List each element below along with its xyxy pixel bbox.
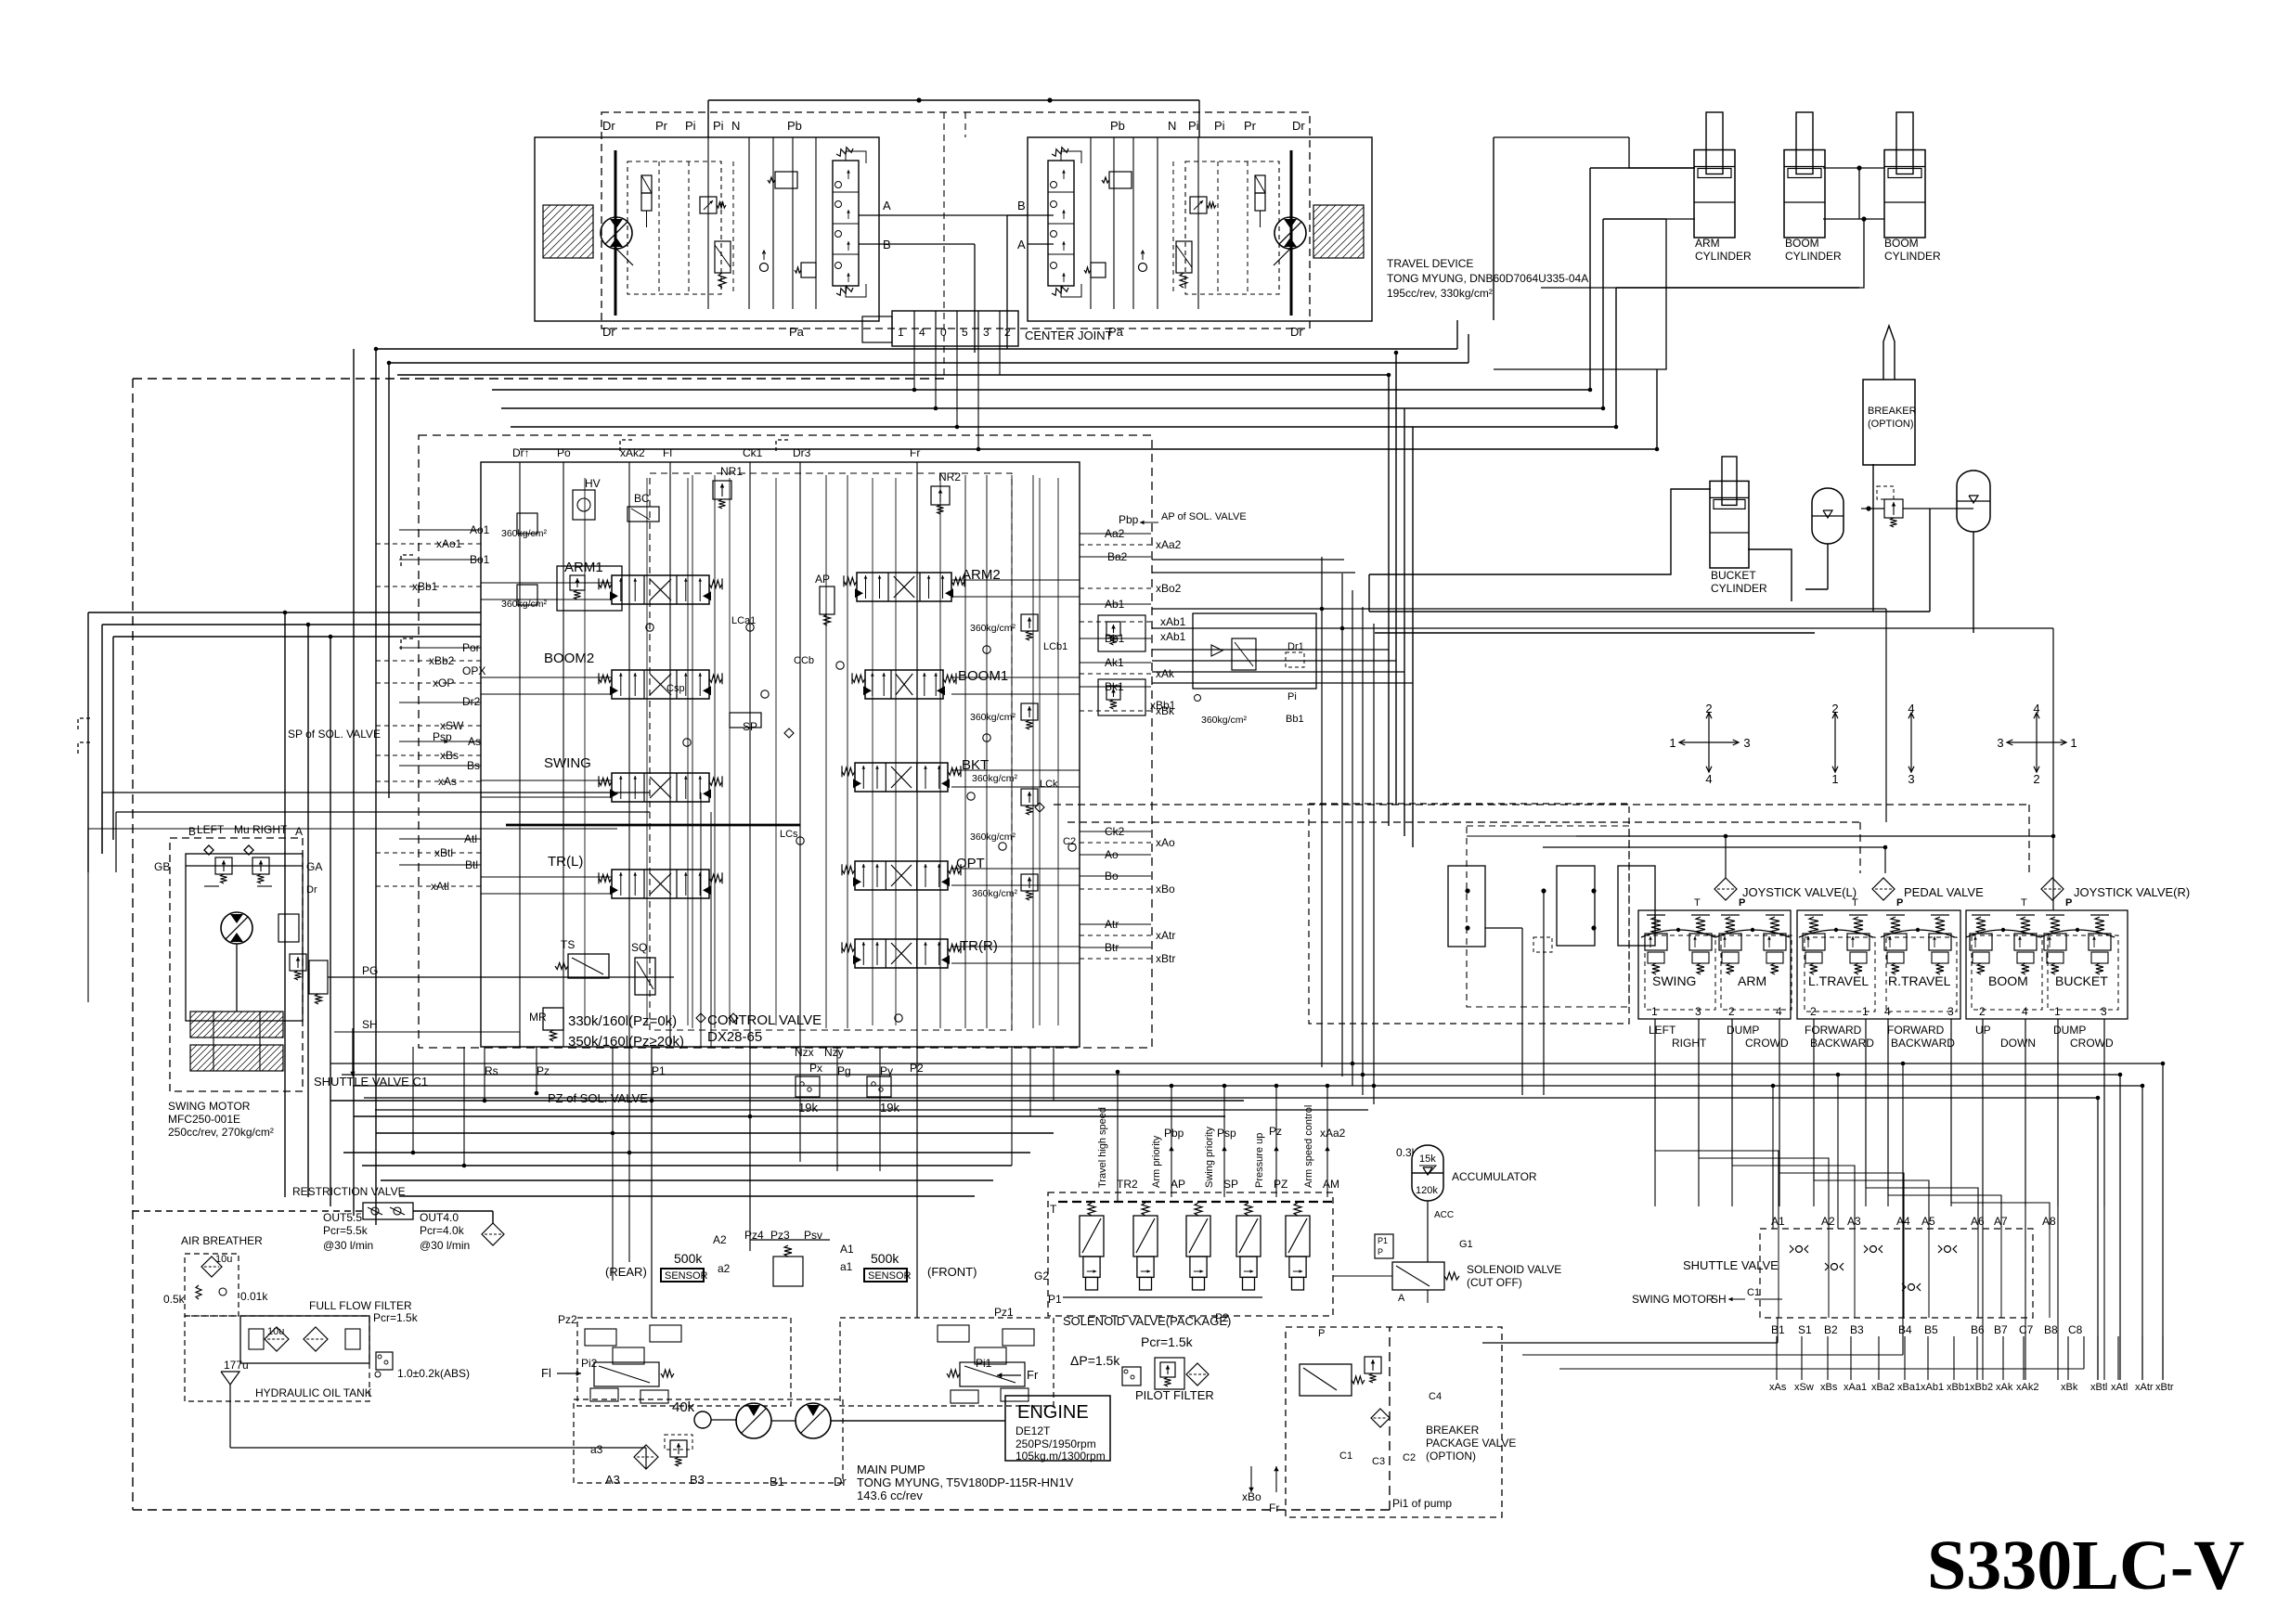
svg-text:Dr2: Dr2 [462, 695, 481, 708]
svg-text:PACKAGE VALVE: PACKAGE VALVE [1426, 1437, 1516, 1450]
svg-text:AM: AM [1323, 1178, 1339, 1191]
svg-text:xBo: xBo [1156, 883, 1175, 896]
svg-text:xAa2: xAa2 [1320, 1127, 1346, 1140]
svg-text:SP: SP [1223, 1178, 1238, 1191]
svg-text:350k/160l(Pz≥20k): 350k/160l(Pz≥20k) [568, 1034, 684, 1050]
svg-text:SOLENOID VALVE(PACKAGE): SOLENOID VALVE(PACKAGE) [1063, 1314, 1231, 1328]
svg-text:xBb1: xBb1 [412, 580, 438, 593]
svg-text:360kg/cm²: 360kg/cm² [970, 712, 1016, 723]
svg-text:OPX: OPX [462, 664, 485, 677]
svg-text:Pi1 of pump: Pi1 of pump [1392, 1497, 1452, 1510]
svg-text:P: P [2065, 897, 2072, 909]
svg-text:NR1: NR1 [720, 465, 743, 478]
svg-text:(OPTION): (OPTION) [1426, 1450, 1476, 1463]
svg-text:xBb1: xBb1 [1947, 1382, 1970, 1393]
svg-text:xAk: xAk [1996, 1382, 2013, 1393]
svg-text:Travel high speed: Travel high speed [1097, 1107, 1108, 1188]
svg-text:3: 3 [1743, 736, 1750, 750]
svg-text:2: 2 [1705, 702, 1712, 715]
svg-text:Pcr=5.5k: Pcr=5.5k [323, 1224, 369, 1237]
svg-text:BOOM: BOOM [1988, 973, 2028, 988]
svg-text:SP of SOL. VALVE: SP of SOL. VALVE [288, 728, 381, 741]
svg-text:B7: B7 [1994, 1323, 2008, 1336]
svg-text:MAIN PUMP: MAIN PUMP [857, 1463, 925, 1476]
svg-text:BACKWARD: BACKWARD [1891, 1037, 1955, 1050]
svg-text:(FRONT): (FRONT) [927, 1265, 977, 1279]
svg-text:2: 2 [1810, 1005, 1817, 1018]
svg-text:4: 4 [2022, 1005, 2028, 1018]
svg-text:P: P [1378, 1247, 1383, 1257]
svg-text:Pressure up: Pressure up [1254, 1133, 1265, 1188]
svg-text:BREAKER: BREAKER [1426, 1424, 1480, 1437]
svg-text:CCb: CCb [794, 655, 814, 666]
svg-text:SWING MOTOR: SWING MOTOR [168, 1100, 251, 1113]
svg-text:1: 1 [1862, 1005, 1869, 1018]
svg-text:HV: HV [585, 477, 601, 490]
svg-text:C8: C8 [2068, 1323, 2083, 1336]
svg-text:xAb1: xAb1 [1921, 1382, 1944, 1393]
svg-text:Fl: Fl [663, 446, 672, 459]
svg-text:Po: Po [557, 446, 571, 459]
svg-text:ARM: ARM [1738, 973, 1766, 988]
svg-text:360kg/cm²: 360kg/cm² [972, 773, 1018, 784]
svg-text:CYLINDER: CYLINDER [1711, 582, 1767, 595]
svg-text:3: 3 [1947, 1005, 1954, 1018]
svg-text:xBb2: xBb2 [1970, 1382, 1993, 1393]
svg-text:360kg/cm²: 360kg/cm² [501, 599, 548, 610]
svg-text:C1: C1 [1339, 1450, 1352, 1462]
svg-text:B1: B1 [770, 1475, 784, 1489]
svg-text:GA: GA [306, 860, 322, 873]
svg-text:xBa1: xBa1 [1897, 1382, 1921, 1393]
svg-text:Pz: Pz [537, 1064, 550, 1077]
svg-text:T: T [1694, 897, 1701, 909]
svg-text:3: 3 [1908, 772, 1914, 786]
svg-text:1: 1 [898, 326, 904, 339]
svg-text:@30 l/min: @30 l/min [323, 1239, 373, 1252]
svg-text:LCs: LCs [780, 829, 798, 840]
svg-text:(REAR): (REAR) [605, 1265, 647, 1279]
svg-text:SH: SH [1711, 1293, 1727, 1306]
svg-text:Pi2: Pi2 [581, 1357, 598, 1370]
svg-text:SHUTTLE VALVE C1: SHUTTLE VALVE C1 [314, 1075, 428, 1089]
svg-text:xAo1: xAo1 [436, 537, 462, 550]
svg-text:Pi: Pi [1287, 691, 1297, 702]
svg-text:Nzx: Nzx [795, 1046, 814, 1059]
svg-text:L.TRAVEL: L.TRAVEL [1808, 973, 1869, 988]
svg-text:G1: G1 [1459, 1239, 1473, 1250]
svg-text:P1: P1 [1378, 1236, 1388, 1245]
svg-text:CYLINDER: CYLINDER [1785, 250, 1842, 263]
svg-text:LEFT: LEFT [197, 823, 225, 836]
svg-text:Pi: Pi [713, 119, 724, 133]
svg-text:Rs: Rs [485, 1064, 498, 1077]
svg-text:a2: a2 [718, 1262, 731, 1275]
svg-text:Pb: Pb [787, 119, 802, 133]
svg-text:C1: C1 [1747, 1287, 1760, 1298]
svg-text:2: 2 [1728, 1005, 1735, 1018]
svg-text:R.TRAVEL: R.TRAVEL [1888, 973, 1951, 988]
svg-text:xAk2: xAk2 [2016, 1382, 2038, 1393]
svg-text:SH: SH [362, 1018, 378, 1031]
svg-text:143.6 cc/rev: 143.6 cc/rev [857, 1489, 923, 1502]
svg-text:360kg/cm²: 360kg/cm² [972, 888, 1018, 899]
svg-text:A3: A3 [605, 1473, 620, 1487]
svg-text:Fr: Fr [910, 446, 920, 459]
svg-text:ENGINE: ENGINE [1017, 1402, 1089, 1423]
svg-text:@30 l/min: @30 l/min [420, 1239, 470, 1252]
svg-text:C7: C7 [2019, 1323, 2034, 1336]
svg-text:A: A [883, 199, 891, 213]
svg-text:B: B [1017, 199, 1026, 213]
svg-text:Dr3: Dr3 [793, 446, 811, 459]
svg-text:SWING: SWING [1652, 973, 1696, 988]
svg-text:Pbp: Pbp [1164, 1127, 1184, 1140]
svg-text:P: P [1896, 897, 1903, 909]
svg-text:xBtr: xBtr [2155, 1382, 2174, 1393]
svg-text:xAa2: xAa2 [1156, 538, 1182, 551]
svg-text:S330LC-V: S330LC-V [1927, 1527, 2245, 1605]
svg-text:SENSOR: SENSOR [665, 1270, 708, 1282]
svg-text:SOLENOID VALVE: SOLENOID VALVE [1467, 1263, 1561, 1276]
svg-text:xBa2: xBa2 [1871, 1382, 1895, 1393]
svg-text:xAa1: xAa1 [1844, 1382, 1867, 1393]
svg-text:3: 3 [1695, 1005, 1701, 1018]
svg-text:CROWD: CROWD [1745, 1037, 1789, 1050]
svg-text:xAk: xAk [1156, 667, 1175, 680]
svg-text:PILOT FILTER: PILOT FILTER [1135, 1388, 1214, 1402]
svg-text:xBo: xBo [1242, 1490, 1261, 1503]
svg-text:10u: 10u [215, 1254, 232, 1265]
svg-text:Pr: Pr [1244, 119, 1257, 133]
svg-text:360kg/cm²: 360kg/cm² [970, 831, 1016, 843]
svg-text:15k: 15k [1419, 1154, 1436, 1165]
svg-text:JOYSTICK VALVE(R): JOYSTICK VALVE(R) [2074, 885, 2190, 899]
svg-text:Fr: Fr [1269, 1502, 1279, 1514]
svg-text:(OPTION): (OPTION) [1868, 419, 1914, 430]
svg-text:S1: S1 [1798, 1323, 1812, 1336]
svg-text:BACKWARD: BACKWARD [1810, 1037, 1874, 1050]
svg-text:2: 2 [1004, 326, 1011, 339]
svg-text:ACCUMULATOR: ACCUMULATOR [1452, 1170, 1537, 1183]
svg-text:BREAKER: BREAKER [1868, 406, 1917, 417]
svg-text:xAb1: xAb1 [1160, 615, 1186, 628]
svg-text:TRAVEL DEVICE: TRAVEL DEVICE [1387, 257, 1473, 270]
svg-text:Pa: Pa [789, 325, 805, 339]
svg-text:Py: Py [880, 1064, 893, 1077]
svg-text:Bb1: Bb1 [1286, 714, 1304, 725]
svg-text:B: B [188, 825, 196, 838]
svg-text:TONG MYUNG, T5V180DP-115R-HN1V: TONG MYUNG, T5V180DP-115R-HN1V [857, 1476, 1074, 1489]
svg-text:xAk2: xAk2 [620, 446, 645, 459]
svg-text:Pi: Pi [1188, 119, 1199, 133]
svg-text:3: 3 [983, 326, 990, 339]
svg-text:ARM1: ARM1 [564, 560, 603, 575]
svg-text:Csp: Csp [666, 683, 685, 694]
svg-text:LEFT: LEFT [1649, 1024, 1676, 1037]
svg-text:500k: 500k [674, 1251, 703, 1266]
svg-text:Dr: Dr [306, 884, 317, 896]
svg-text:Dr: Dr [602, 119, 615, 133]
svg-text:3: 3 [1997, 736, 2003, 750]
svg-text:LCb1: LCb1 [1043, 641, 1067, 652]
svg-text:ACC: ACC [1434, 1210, 1454, 1220]
svg-text:Mu: Mu [234, 823, 250, 836]
svg-text:195cc/rev, 330kg/cm²: 195cc/rev, 330kg/cm² [1387, 287, 1493, 300]
svg-text:500k: 500k [871, 1251, 899, 1266]
svg-text:Arm priority: Arm priority [1151, 1135, 1162, 1188]
svg-text:TR2: TR2 [1117, 1178, 1138, 1191]
svg-text:Dr: Dr [1292, 119, 1305, 133]
svg-text:CROWD: CROWD [2070, 1037, 2114, 1050]
svg-text:Dr: Dr [834, 1475, 847, 1489]
svg-text:B4: B4 [1898, 1323, 1912, 1336]
svg-text:1: 1 [1669, 736, 1675, 750]
svg-text:RIGHT: RIGHT [252, 823, 288, 836]
svg-text:360kg/cm²: 360kg/cm² [970, 623, 1016, 634]
svg-text:DUMP: DUMP [1727, 1024, 1759, 1037]
svg-text:1: 1 [2054, 1005, 2061, 1018]
svg-text:xSw: xSw [1794, 1382, 1814, 1393]
svg-text:A: A [1398, 1293, 1405, 1304]
svg-text:xAtl: xAtl [2111, 1382, 2128, 1393]
svg-text:40k: 40k [672, 1399, 695, 1415]
svg-text:CONTROL VALVE: CONTROL VALVE [707, 1012, 822, 1028]
svg-text:Pz: Pz [1269, 1125, 1282, 1138]
svg-text:T: T [1050, 1203, 1057, 1216]
svg-text:NR2: NR2 [938, 470, 961, 483]
svg-text:B3: B3 [690, 1473, 705, 1487]
svg-text:xBtl: xBtl [2090, 1382, 2107, 1393]
svg-text:1: 1 [1651, 1005, 1658, 1018]
svg-text:330k/160l(Pz=0k): 330k/160l(Pz=0k) [568, 1013, 677, 1029]
svg-text:Dr: Dr [602, 325, 615, 339]
svg-text:4: 4 [2033, 702, 2039, 715]
svg-text:10u: 10u [267, 1326, 284, 1337]
svg-text:Swing priority: Swing priority [1204, 1126, 1215, 1188]
svg-text:SQ: SQ [631, 941, 647, 954]
svg-text:FORWARD: FORWARD [1887, 1024, 1945, 1037]
svg-text:B5: B5 [1924, 1323, 1938, 1336]
svg-text:360kg/cm²: 360kg/cm² [501, 528, 548, 539]
svg-text:250PS/1950rpm: 250PS/1950rpm [1016, 1437, 1096, 1450]
svg-text:A: A [295, 825, 303, 838]
svg-text:Pi1: Pi1 [976, 1357, 992, 1370]
svg-text:ΔP=1.5k: ΔP=1.5k [1070, 1353, 1120, 1368]
svg-text:xBb1: xBb1 [1150, 699, 1176, 712]
svg-text:CYLINDER: CYLINDER [1884, 250, 1941, 263]
svg-text:BOOM2: BOOM2 [544, 651, 594, 666]
svg-text:0.5k: 0.5k [163, 1293, 186, 1306]
svg-text:SENSOR: SENSOR [868, 1270, 912, 1282]
svg-text:a3: a3 [590, 1443, 603, 1456]
svg-text:Pr: Pr [655, 119, 668, 133]
svg-text:P1: P1 [652, 1064, 666, 1077]
svg-text:DX28-65: DX28-65 [707, 1029, 762, 1045]
svg-text:xAo: xAo [1156, 836, 1175, 849]
svg-text:SP: SP [743, 720, 757, 733]
svg-text:0.01k: 0.01k [240, 1290, 268, 1303]
svg-text:CYLINDER: CYLINDER [1695, 250, 1752, 263]
svg-text:GB: GB [154, 860, 170, 873]
svg-text:(CUT OFF): (CUT OFF) [1467, 1276, 1522, 1289]
svg-text:Pz2: Pz2 [558, 1313, 577, 1326]
svg-text:RIGHT: RIGHT [1672, 1037, 1707, 1050]
svg-text:Pbp: Pbp [1119, 513, 1139, 526]
svg-text:Ck1: Ck1 [743, 446, 763, 459]
svg-text:T: T [2021, 897, 2027, 909]
svg-text:5: 5 [962, 326, 968, 339]
svg-text:1: 1 [2070, 736, 2077, 750]
svg-text:1: 1 [1831, 772, 1838, 786]
svg-text:a1: a1 [840, 1260, 853, 1273]
svg-text:LCk: LCk [1040, 779, 1058, 790]
svg-text:AP: AP [815, 573, 830, 586]
svg-text:120k: 120k [1416, 1185, 1438, 1196]
svg-text:Pi: Pi [685, 119, 696, 133]
svg-text:P2: P2 [1215, 1311, 1229, 1324]
svg-text:Pg: Pg [837, 1064, 851, 1077]
svg-text:A1: A1 [840, 1243, 854, 1256]
svg-text:3: 3 [2101, 1005, 2107, 1018]
svg-text:4: 4 [919, 326, 925, 339]
svg-text:B3: B3 [1850, 1323, 1864, 1336]
svg-text:19k: 19k [798, 1101, 818, 1115]
svg-text:360kg/cm²: 360kg/cm² [1201, 715, 1248, 726]
svg-text:105kg.m/1300rpm: 105kg.m/1300rpm [1016, 1450, 1106, 1463]
svg-text:A2: A2 [713, 1233, 727, 1246]
svg-text:N: N [731, 119, 740, 133]
svg-text:FORWARD: FORWARD [1805, 1024, 1862, 1037]
svg-text:DE12T: DE12T [1016, 1424, 1051, 1437]
svg-text:N: N [1168, 119, 1176, 133]
svg-text:Pz1: Pz1 [994, 1306, 1014, 1319]
svg-text:2: 2 [1979, 1005, 1986, 1018]
svg-text:B: B [883, 238, 891, 251]
svg-text:CENTER JOINT: CENTER JOINT [1025, 329, 1113, 342]
svg-text:BUCKET: BUCKET [2055, 973, 2108, 988]
svg-text:xAtr: xAtr [2135, 1382, 2154, 1393]
svg-text:xAtr: xAtr [1156, 929, 1175, 942]
svg-text:177u: 177u [224, 1359, 249, 1372]
svg-text:xAb1: xAb1 [1160, 630, 1186, 643]
svg-text:DOWN: DOWN [2000, 1037, 2036, 1050]
svg-text:BC: BC [634, 492, 650, 505]
svg-text:MFC250-001E: MFC250-001E [168, 1113, 240, 1126]
svg-text:xBtr: xBtr [1156, 952, 1175, 965]
svg-text:P1: P1 [1048, 1293, 1062, 1306]
svg-text:0: 0 [940, 326, 947, 339]
svg-text:SHUTTLE VALVE: SHUTTLE VALVE [1683, 1258, 1779, 1272]
svg-text:TS: TS [561, 938, 575, 951]
svg-text:Pcr=1.5k: Pcr=1.5k [1141, 1334, 1194, 1349]
svg-text:Arm speed control: Arm speed control [1303, 1105, 1314, 1188]
svg-text:Pi: Pi [1214, 119, 1225, 133]
svg-text:P: P [1318, 1328, 1325, 1339]
svg-text:PEDAL VALVE: PEDAL VALVE [1904, 885, 1984, 899]
svg-text:xAs: xAs [1769, 1382, 1787, 1393]
svg-text:TR(L): TR(L) [548, 854, 583, 870]
svg-text:BOOM: BOOM [1785, 237, 1819, 250]
svg-text:1.0±0.2k(ABS): 1.0±0.2k(ABS) [397, 1367, 470, 1380]
svg-text:SWING MOTOR: SWING MOTOR [1632, 1293, 1714, 1306]
svg-text:xBk: xBk [2061, 1382, 2078, 1393]
svg-text:BUCKET: BUCKET [1711, 569, 1756, 582]
svg-text:4: 4 [1908, 702, 1914, 715]
svg-text:Dr: Dr [1290, 325, 1303, 339]
svg-text:G2: G2 [1034, 1270, 1049, 1282]
svg-text:4: 4 [1705, 772, 1712, 786]
svg-text:Pcr=4.0k: Pcr=4.0k [420, 1224, 465, 1237]
svg-text:C3: C3 [1372, 1456, 1385, 1467]
svg-text:Fl: Fl [541, 1366, 551, 1380]
svg-text:AIR BREATHER: AIR BREATHER [181, 1234, 263, 1247]
svg-text:19k: 19k [880, 1101, 899, 1115]
svg-text:xBb2: xBb2 [429, 654, 455, 667]
svg-text:ARM: ARM [1695, 237, 1720, 250]
svg-text:Dr↑: Dr↑ [512, 446, 530, 459]
svg-text:SWING: SWING [544, 755, 591, 771]
svg-text:FULL FLOW FILTER: FULL FLOW FILTER [309, 1299, 412, 1312]
svg-text:OUT5.5: OUT5.5 [323, 1211, 362, 1224]
svg-text:B8: B8 [2044, 1323, 2058, 1336]
svg-text:BOOM: BOOM [1884, 237, 1919, 250]
svg-text:Nzy: Nzy [824, 1046, 844, 1059]
svg-text:250cc/rev, 270kg/cm²: 250cc/rev, 270kg/cm² [168, 1126, 274, 1139]
svg-text:HYDRAULIC OIL TANK: HYDRAULIC OIL TANK [255, 1386, 372, 1399]
svg-text:Dr1: Dr1 [1287, 641, 1304, 652]
svg-text:AP: AP [1171, 1178, 1185, 1191]
svg-text:PZ: PZ [1274, 1178, 1287, 1191]
svg-text:xBo2: xBo2 [1156, 582, 1182, 595]
svg-text:PG: PG [362, 964, 378, 977]
svg-text:2: 2 [2033, 772, 2039, 786]
svg-text:OUT4.0: OUT4.0 [420, 1211, 459, 1224]
svg-text:0.3l: 0.3l [1396, 1146, 1414, 1159]
svg-text:MR: MR [529, 1011, 547, 1024]
svg-text:RESTRICTION VALVE: RESTRICTION VALVE [292, 1185, 406, 1198]
svg-text:C2: C2 [1403, 1452, 1416, 1463]
svg-text:C2: C2 [1063, 836, 1076, 847]
svg-text:C4: C4 [1429, 1391, 1442, 1402]
svg-text:Psp: Psp [1217, 1127, 1236, 1140]
svg-text:TONG MYUNG, DNB60D7064U335-04A: TONG MYUNG, DNB60D7064U335-04A [1387, 272, 1588, 285]
svg-text:Pb: Pb [1110, 119, 1125, 133]
svg-text:A: A [1017, 238, 1026, 251]
svg-text:4: 4 [1776, 1005, 1782, 1018]
svg-text:Fr: Fr [1027, 1368, 1039, 1382]
svg-text:Pcr=1.5k: Pcr=1.5k [373, 1311, 419, 1324]
svg-text:B2: B2 [1824, 1323, 1838, 1336]
svg-text:JOYSTICK VALVE(L): JOYSTICK VALVE(L) [1742, 885, 1857, 899]
svg-text:4: 4 [1884, 1005, 1891, 1018]
svg-text:AP of SOL. VALVE: AP of SOL. VALVE [1161, 511, 1247, 522]
svg-text:2: 2 [1831, 702, 1838, 715]
svg-text:xBs: xBs [1820, 1382, 1838, 1393]
